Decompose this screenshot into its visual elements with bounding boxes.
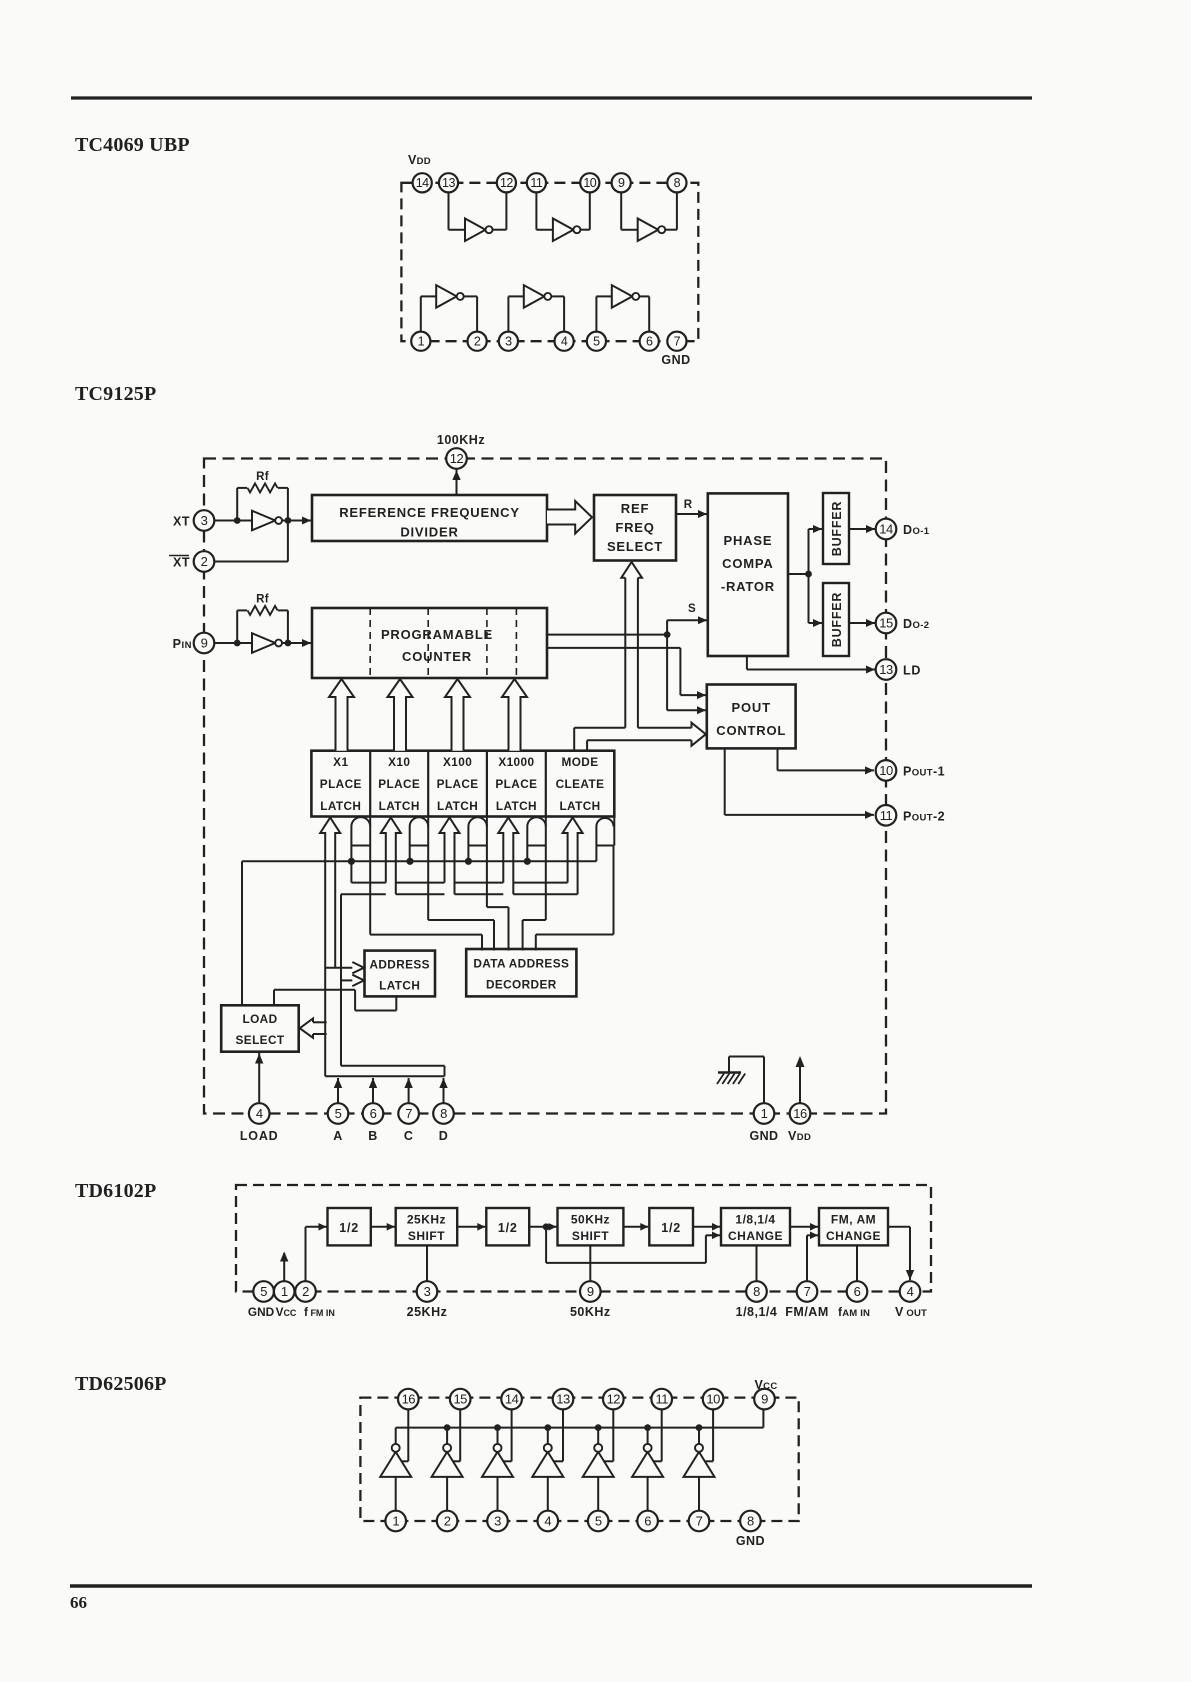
svg-text:25KHz: 25KHz bbox=[407, 1213, 446, 1227]
block latch row bbox=[311, 751, 614, 817]
svg-text:3: 3 bbox=[201, 513, 208, 528]
svg-text:DO-2: DO-2 bbox=[903, 617, 929, 631]
wire Vcc rail bbox=[396, 1427, 764, 1429]
svg-text:9: 9 bbox=[761, 1392, 768, 1407]
svg-text:1: 1 bbox=[761, 1106, 768, 1121]
wire Rf feedback bbox=[236, 488, 238, 521]
svg-text:13: 13 bbox=[442, 176, 455, 190]
svg-text:CHANGE: CHANGE bbox=[826, 1229, 881, 1243]
wire input from bottom pin bbox=[647, 1477, 649, 1511]
svg-text:2: 2 bbox=[201, 554, 208, 569]
pin 3 bbox=[194, 510, 215, 531]
pin 5 bbox=[328, 1103, 349, 1124]
hollow arrow to REF FREQ SELECT bbox=[547, 501, 592, 534]
wire Vcc arrow bbox=[283, 1253, 285, 1281]
wire bbox=[214, 520, 252, 522]
pin 10 bbox=[580, 173, 599, 192]
wire chain bbox=[371, 1226, 395, 1228]
svg-text:LD: LD bbox=[903, 664, 921, 678]
svg-text:3: 3 bbox=[494, 1514, 501, 1529]
pin 8 bbox=[433, 1103, 454, 1124]
wire H894 bbox=[341, 893, 386, 895]
pin 8 bbox=[667, 173, 686, 192]
svg-text:PLACE: PLACE bbox=[320, 777, 362, 791]
wire bbox=[282, 642, 312, 644]
svg-text:14: 14 bbox=[416, 176, 429, 190]
wires A B C D bbox=[337, 1078, 339, 1103]
pin 2 bbox=[468, 332, 487, 351]
transistor driver 3 bbox=[482, 1452, 513, 1477]
block 1/2 bbox=[486, 1208, 529, 1245]
wire bbox=[507, 296, 509, 331]
svg-text:-RATOR: -RATOR bbox=[721, 579, 775, 594]
svg-text:XT: XT bbox=[173, 515, 190, 529]
svg-text:11: 11 bbox=[530, 176, 543, 190]
svg-text:POUT-2: POUT-2 bbox=[903, 809, 945, 823]
svg-text:D: D bbox=[439, 1129, 449, 1143]
svg-text:VCC: VCC bbox=[276, 1305, 297, 1319]
junction bbox=[234, 517, 241, 524]
transistor driver 1 bbox=[380, 1452, 411, 1477]
pin 11 bbox=[527, 173, 546, 192]
wire feedback bbox=[545, 1227, 547, 1263]
svg-text:COUNTER: COUNTER bbox=[402, 649, 472, 664]
svg-text:LATCH: LATCH bbox=[320, 799, 361, 813]
svg-text:FM, AM: FM, AM bbox=[831, 1213, 876, 1227]
wire bbox=[551, 295, 564, 297]
svg-text:50KHz: 50KHz bbox=[570, 1305, 611, 1319]
svg-text:12: 12 bbox=[607, 1392, 621, 1407]
block address latch bbox=[365, 951, 436, 997]
svg-text:V OUT: V OUT bbox=[895, 1305, 927, 1319]
inverter U1c bbox=[638, 218, 659, 241]
wire bbox=[595, 296, 597, 331]
svg-text:PROGRAMABLE: PROGRAMABLE bbox=[381, 627, 493, 642]
svg-text:12: 12 bbox=[500, 176, 513, 190]
svg-text:12: 12 bbox=[450, 451, 464, 466]
pin 1 bbox=[411, 332, 430, 351]
svg-text:5: 5 bbox=[593, 335, 600, 349]
wire bbox=[214, 642, 252, 644]
svg-text:14: 14 bbox=[505, 1392, 519, 1407]
wire Do-1 bbox=[849, 528, 875, 530]
svg-text:1/2: 1/2 bbox=[339, 1221, 359, 1235]
svg-text:XT: XT bbox=[173, 556, 190, 570]
svg-text:7: 7 bbox=[674, 335, 681, 349]
block 50KHz bbox=[558, 1208, 624, 1245]
pin 5 bbox=[253, 1281, 274, 1302]
svg-text:2: 2 bbox=[444, 1514, 451, 1529]
hollow shaft up to REF FREQ SELECT bbox=[624, 578, 626, 728]
svg-text:DECORDER: DECORDER bbox=[486, 978, 557, 992]
svg-text:TD62506P: TD62506P bbox=[75, 1373, 167, 1395]
wire 100KHz to divider bbox=[456, 469, 458, 495]
svg-text:6: 6 bbox=[644, 1514, 651, 1529]
block FM, AM bbox=[819, 1208, 888, 1245]
svg-text:15: 15 bbox=[453, 1392, 467, 1407]
inverter U1e bbox=[524, 285, 545, 308]
wire bbox=[493, 229, 507, 231]
wire output to top pin bbox=[612, 1409, 614, 1461]
svg-text:8: 8 bbox=[440, 1106, 447, 1121]
pin 1 bbox=[754, 1103, 775, 1124]
svg-text:66: 66 bbox=[70, 1593, 87, 1612]
pin 14 bbox=[876, 519, 897, 540]
resistor Rf bbox=[248, 606, 278, 615]
svg-text:5: 5 bbox=[595, 1514, 602, 1529]
pin 13 bbox=[553, 1389, 574, 1410]
block 1/8,1/4 bbox=[721, 1208, 790, 1245]
svg-text:50KHz: 50KHz bbox=[571, 1213, 610, 1227]
block 1/2 bbox=[649, 1208, 693, 1245]
svg-text:LATCH: LATCH bbox=[379, 979, 420, 993]
wire FM/AM select bbox=[806, 1235, 808, 1281]
svg-text:X100: X100 bbox=[443, 755, 472, 769]
svg-text:SHIFT: SHIFT bbox=[408, 1229, 445, 1243]
svg-text:2: 2 bbox=[302, 1284, 309, 1299]
wire LD bbox=[746, 656, 748, 670]
pin 9 bbox=[194, 633, 215, 654]
svg-text:POUT-1: POUT-1 bbox=[903, 764, 945, 778]
svg-text:LATCH: LATCH bbox=[437, 799, 478, 813]
svg-text:X1: X1 bbox=[333, 755, 348, 769]
wire phase out bbox=[788, 573, 809, 575]
svg-text:7: 7 bbox=[405, 1106, 412, 1121]
wire bbox=[464, 295, 477, 297]
svg-text:R: R bbox=[684, 499, 693, 511]
svg-text:X10: X10 bbox=[388, 755, 410, 769]
wire 50KHz out bbox=[589, 1245, 591, 1281]
junction bbox=[664, 631, 671, 638]
svg-text:REFERENCE FREQUENCY: REFERENCE FREQUENCY bbox=[339, 505, 520, 520]
wire 1/8 out bbox=[756, 1245, 758, 1281]
pin 9 bbox=[580, 1281, 601, 1302]
svg-text:f FM IN: f FM IN bbox=[304, 1305, 335, 1319]
wire S path bbox=[547, 634, 667, 636]
wire output to top pin bbox=[459, 1409, 461, 1461]
wire output to top pin bbox=[407, 1409, 409, 1461]
wire H883 bbox=[351, 882, 385, 884]
svg-text:TD6102P: TD6102P bbox=[75, 1180, 156, 1202]
svg-text:1/8,1/4: 1/8,1/4 bbox=[735, 1213, 775, 1227]
svg-text:1: 1 bbox=[281, 1284, 288, 1299]
wire dot stub bbox=[350, 861, 352, 882]
svg-text:X1000: X1000 bbox=[498, 755, 534, 769]
wire Vdd arrow bbox=[799, 1058, 801, 1103]
svg-text:10: 10 bbox=[583, 176, 596, 190]
hollow arrows into address latch bbox=[352, 962, 364, 973]
wire output to top pin bbox=[511, 1409, 513, 1461]
inverter U2 crystal bbox=[252, 511, 275, 531]
pin 4 bbox=[900, 1281, 921, 1302]
pin 9 bbox=[754, 1389, 775, 1410]
svg-text:25KHz: 25KHz bbox=[407, 1305, 448, 1319]
svg-text:VDD: VDD bbox=[408, 153, 431, 167]
svg-text:8: 8 bbox=[674, 176, 681, 190]
svg-text:13: 13 bbox=[556, 1392, 570, 1407]
pin 7 bbox=[667, 332, 686, 351]
inverter U1d bbox=[436, 285, 457, 308]
TC9125P chip dashed border bbox=[204, 459, 886, 1114]
svg-text:3: 3 bbox=[505, 335, 512, 349]
wire bbox=[420, 296, 422, 331]
pin 9 bbox=[612, 173, 631, 192]
junction bbox=[234, 640, 241, 647]
pin 6 bbox=[363, 1103, 384, 1124]
svg-text:GND: GND bbox=[736, 1534, 765, 1548]
svg-text:DO-1: DO-1 bbox=[903, 523, 930, 537]
pin 3 bbox=[417, 1281, 438, 1302]
svg-text:6: 6 bbox=[370, 1106, 377, 1121]
svg-text:1/2: 1/2 bbox=[498, 1221, 518, 1235]
svg-text:DATA ADDRESS: DATA ADDRESS bbox=[473, 957, 569, 971]
wire bbox=[639, 295, 649, 297]
wire input from bottom pin bbox=[698, 1477, 700, 1511]
junction bbox=[285, 517, 292, 524]
svg-text:14: 14 bbox=[879, 522, 893, 537]
bottom rule bbox=[70, 1584, 1032, 1588]
hollow arrows into latches bbox=[320, 818, 340, 1077]
pin 6 bbox=[640, 332, 659, 351]
svg-text:B: B bbox=[368, 1129, 378, 1143]
block buffer 2 bbox=[823, 583, 849, 656]
svg-text:LATCH: LATCH bbox=[496, 799, 537, 813]
svg-text:MODE: MODE bbox=[562, 755, 599, 769]
svg-text:fAM IN: fAM IN bbox=[838, 1305, 870, 1319]
wire 25KHz out bbox=[426, 1245, 428, 1281]
svg-text:4: 4 bbox=[256, 1106, 263, 1121]
svg-text:1: 1 bbox=[418, 335, 425, 349]
hollow wire band and arrow into POUT control bbox=[573, 728, 575, 751]
svg-text:LATCH: LATCH bbox=[379, 799, 420, 813]
svg-text:3: 3 bbox=[424, 1284, 431, 1299]
pin 10 bbox=[876, 760, 897, 781]
pin 12 bbox=[446, 448, 467, 469]
pin 15 bbox=[450, 1389, 471, 1410]
svg-text:100KHz: 100KHz bbox=[437, 433, 485, 447]
wire input from bottom pin bbox=[547, 1477, 549, 1511]
svg-text:SELECT: SELECT bbox=[607, 539, 663, 554]
pin 14 bbox=[501, 1389, 522, 1410]
svg-text:7: 7 bbox=[696, 1514, 703, 1529]
svg-text:Rf: Rf bbox=[256, 593, 269, 605]
svg-text:PLACE: PLACE bbox=[437, 777, 479, 791]
transistor driver 4 bbox=[532, 1452, 563, 1477]
pin 3 bbox=[499, 332, 518, 351]
pin 2 bbox=[295, 1281, 316, 1302]
svg-text:FREQ: FREQ bbox=[615, 520, 654, 535]
svg-text:1/8,1/4: 1/8,1/4 bbox=[736, 1305, 778, 1319]
svg-text:16: 16 bbox=[793, 1106, 807, 1121]
junction bbox=[805, 571, 812, 578]
block 25KHz bbox=[396, 1208, 458, 1245]
pin 10 bbox=[703, 1389, 724, 1410]
TC4069 package dashed border bbox=[401, 183, 698, 341]
TD6102P dashed border bbox=[236, 1185, 931, 1292]
pin 4 bbox=[555, 332, 574, 351]
junction bbox=[285, 640, 292, 647]
top rule bbox=[71, 96, 1032, 99]
svg-text:8: 8 bbox=[747, 1514, 754, 1529]
svg-text:S: S bbox=[688, 603, 696, 615]
block load select bbox=[221, 1005, 299, 1051]
wire Vout bbox=[888, 1226, 910, 1228]
pin 6 bbox=[847, 1281, 868, 1302]
svg-text:TC4069 UBP: TC4069 UBP bbox=[75, 134, 190, 156]
inverter U1a bbox=[465, 218, 486, 241]
pin 11 bbox=[651, 1389, 672, 1410]
wire Do-2 bbox=[849, 622, 875, 624]
wire decoder feeds bbox=[369, 846, 371, 935]
svg-text:5: 5 bbox=[260, 1284, 267, 1299]
wire Rf feedback bbox=[236, 610, 238, 643]
wire fAM in bbox=[856, 1245, 858, 1281]
svg-text:1/2: 1/2 bbox=[661, 1221, 681, 1235]
svg-text:PLACE: PLACE bbox=[378, 777, 420, 791]
wire arches bbox=[351, 817, 370, 861]
wire pin1 to ground bbox=[763, 1057, 765, 1104]
svg-text:PIN: PIN bbox=[173, 637, 192, 651]
block phase comparator bbox=[708, 493, 788, 656]
transistor driver 2 bbox=[432, 1452, 463, 1477]
wire bbox=[448, 192, 450, 229]
svg-text:BUFFER: BUFFER bbox=[830, 501, 844, 557]
wire address latch to load select bbox=[395, 996, 397, 1010]
svg-text:SELECT: SELECT bbox=[236, 1033, 285, 1047]
pin 15 bbox=[876, 613, 897, 634]
svg-text:10: 10 bbox=[706, 1392, 720, 1407]
svg-text:5: 5 bbox=[335, 1106, 342, 1121]
svg-text:4: 4 bbox=[561, 335, 568, 349]
wire fFM in bbox=[305, 1227, 307, 1281]
svg-text:4: 4 bbox=[544, 1514, 551, 1529]
wire input from bottom pin bbox=[446, 1477, 448, 1511]
pin 2 bbox=[194, 551, 215, 572]
wire bbox=[282, 520, 312, 522]
wire to address latch bbox=[325, 967, 352, 969]
pin 1 bbox=[274, 1281, 295, 1302]
inverter U1f bbox=[612, 285, 633, 308]
svg-text:LATCH: LATCH bbox=[559, 799, 600, 813]
svg-text:2: 2 bbox=[474, 335, 481, 349]
block buffer 1 bbox=[823, 493, 849, 564]
svg-text:TC9125P: TC9125P bbox=[75, 383, 156, 405]
svg-text:GND: GND bbox=[661, 353, 690, 367]
svg-text:4: 4 bbox=[907, 1284, 914, 1299]
wire R bbox=[676, 513, 707, 515]
svg-text:VDD: VDD bbox=[788, 1129, 811, 1143]
pin 7 bbox=[398, 1103, 419, 1124]
wire pin4 to load select bbox=[258, 1052, 260, 1103]
wire Pout-1 bbox=[777, 748, 779, 770]
pin 4 bbox=[538, 1511, 559, 1532]
block data address decorder bbox=[466, 949, 576, 996]
pin 8 bbox=[740, 1511, 761, 1532]
svg-text:LOAD: LOAD bbox=[242, 1012, 277, 1026]
wire to POUT control A bbox=[547, 647, 680, 649]
svg-text:11: 11 bbox=[655, 1392, 668, 1407]
svg-text:7: 7 bbox=[804, 1284, 811, 1299]
wire input from bottom pin bbox=[497, 1477, 499, 1511]
pin 12 bbox=[497, 173, 516, 192]
pin 5 bbox=[587, 332, 606, 351]
pin 12 bbox=[603, 1389, 624, 1410]
pin 5 bbox=[588, 1511, 609, 1532]
block REF FREQ SELECT bbox=[594, 495, 676, 561]
svg-text:REF: REF bbox=[621, 501, 649, 516]
pin 7 bbox=[797, 1281, 818, 1302]
block 1/2 bbox=[328, 1208, 371, 1245]
svg-text:16: 16 bbox=[402, 1392, 416, 1407]
svg-text:VCC: VCC bbox=[755, 1378, 778, 1392]
svg-text:1: 1 bbox=[392, 1514, 399, 1529]
svg-text:CLEATE: CLEATE bbox=[556, 777, 605, 791]
svg-text:PHASE: PHASE bbox=[724, 533, 773, 548]
pin 13 bbox=[439, 173, 458, 192]
pin 2 bbox=[437, 1511, 458, 1532]
wire output to top pin bbox=[661, 1409, 663, 1461]
pin 16 bbox=[790, 1103, 811, 1124]
svg-text:FM/AM: FM/AM bbox=[785, 1305, 828, 1319]
pin 16 bbox=[398, 1389, 419, 1410]
svg-text:C: C bbox=[404, 1129, 414, 1143]
ground symbol bbox=[718, 1071, 741, 1074]
junction bbox=[543, 1223, 550, 1230]
block programmable counter bbox=[312, 608, 547, 678]
svg-text:8: 8 bbox=[753, 1284, 760, 1299]
wire bbox=[620, 192, 622, 229]
resistor Rf bbox=[248, 483, 278, 492]
svg-text:9: 9 bbox=[201, 636, 208, 651]
svg-text:LOAD: LOAD bbox=[240, 1129, 279, 1143]
svg-text:PLACE: PLACE bbox=[495, 777, 537, 791]
svg-text:GND: GND bbox=[248, 1305, 275, 1319]
svg-text:9: 9 bbox=[587, 1284, 594, 1299]
svg-text:GND: GND bbox=[750, 1129, 779, 1143]
wire to POUT control B bbox=[666, 635, 668, 711]
wire bbox=[580, 229, 589, 231]
svg-text:ADDRESS: ADDRESS bbox=[369, 958, 429, 972]
svg-text:BUFFER: BUFFER bbox=[830, 592, 844, 648]
svg-text:CHANGE: CHANGE bbox=[728, 1229, 783, 1243]
block reference frequency divider bbox=[312, 495, 547, 541]
wire collector lines bbox=[341, 1065, 445, 1067]
pin 8 bbox=[746, 1281, 767, 1302]
TD62506P dashed border bbox=[360, 1398, 798, 1521]
hollow arrows into counter bbox=[329, 679, 354, 751]
pin 14 bbox=[413, 173, 432, 192]
wire input from bottom pin bbox=[395, 1477, 397, 1511]
transistor driver 6 bbox=[632, 1452, 663, 1477]
svg-text:10: 10 bbox=[879, 763, 893, 778]
pin 4 bbox=[249, 1103, 270, 1124]
transistor driver 5 bbox=[583, 1452, 614, 1477]
pin 13 bbox=[876, 659, 897, 680]
wire load select feeds bbox=[313, 1021, 327, 1023]
svg-text:SHIFT: SHIFT bbox=[572, 1229, 609, 1243]
pin 7 bbox=[689, 1511, 710, 1532]
wire Pout-2 bbox=[724, 748, 726, 815]
svg-text:13: 13 bbox=[879, 662, 893, 677]
svg-text:COMPA: COMPA bbox=[722, 556, 773, 571]
svg-text:DIVIDER: DIVIDER bbox=[400, 525, 458, 540]
inverter U1b bbox=[553, 218, 574, 241]
pin 11 bbox=[876, 805, 897, 826]
transistor driver 7 bbox=[684, 1452, 715, 1477]
svg-text:9: 9 bbox=[618, 176, 625, 190]
wire output to top pin bbox=[712, 1409, 714, 1461]
svg-text:A: A bbox=[333, 1129, 343, 1143]
